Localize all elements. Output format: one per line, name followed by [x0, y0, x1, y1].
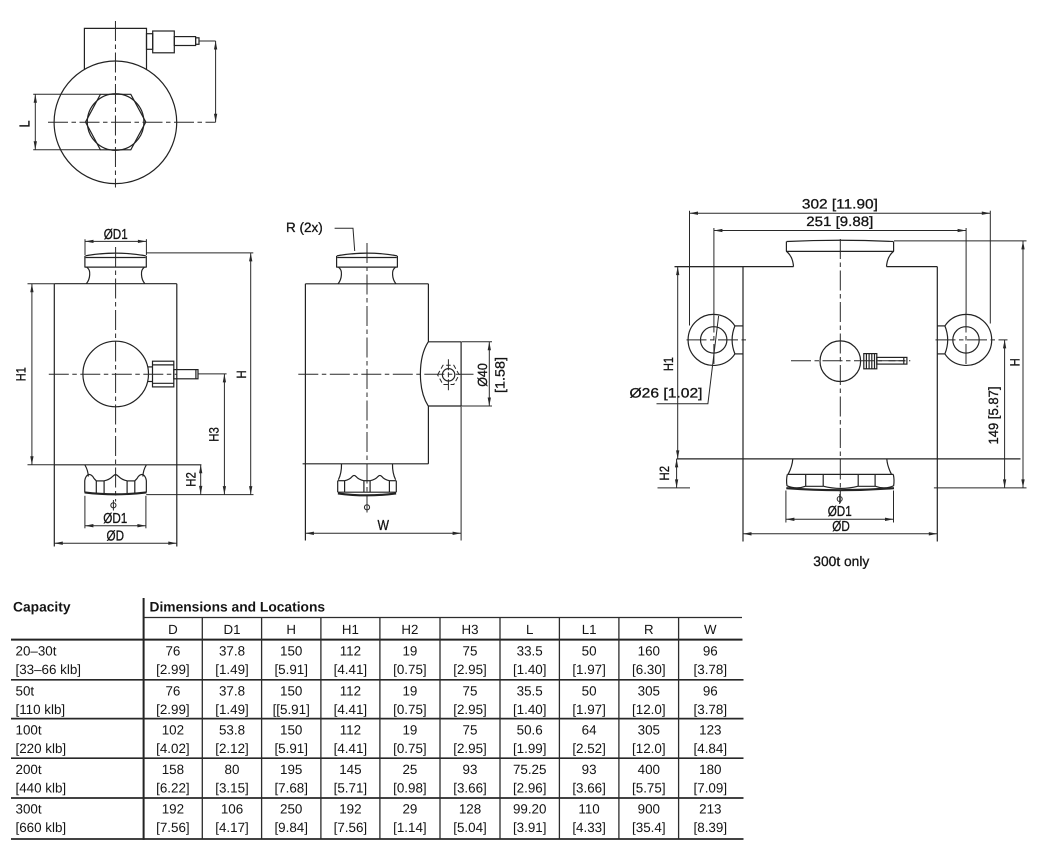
svg-text:53.8: 53.8 — [219, 722, 245, 737]
table row 20–30t — [16, 643, 728, 677]
top view body silhouette — [84, 28, 146, 69]
side view top cap — [336, 253, 398, 267]
svg-text:102: 102 — [162, 722, 184, 737]
table row 50t — [16, 684, 728, 718]
right view O26 leader line — [657, 316, 719, 404]
right view connector block — [864, 354, 877, 369]
right view neck fillets — [787, 252, 894, 267]
front view dimension OD1 top line — [85, 240, 146, 242]
front view dimension H label — [234, 371, 249, 379]
side view dimension O40 line — [488, 342, 490, 406]
svg-text:[110 klb]: [110 klb] — [16, 702, 66, 717]
svg-text:75.25: 75.25 — [513, 762, 547, 777]
svg-text:75: 75 — [463, 684, 478, 699]
svg-text:H1: H1 — [342, 622, 359, 637]
table thick line under letters — [11, 639, 743, 641]
svg-text:[12.0]: [12.0] — [632, 741, 666, 756]
front view top cap — [85, 253, 147, 267]
side view dimension O40 extension lines — [462, 342, 493, 406]
svg-text:Dimensions and Locations: Dimensions and Locations — [150, 600, 326, 615]
front view dimension H line — [250, 253, 252, 495]
svg-text:[5.04]: [5.04] — [453, 820, 487, 835]
svg-text:[5.71]: [5.71] — [334, 780, 368, 795]
svg-text:112: 112 — [340, 722, 361, 737]
svg-text:[35.4]: [35.4] — [632, 820, 666, 835]
svg-text:50t: 50t — [16, 684, 35, 699]
front view dimension H extension lines — [146, 253, 253, 495]
right view dimension H2 bottom extension line — [658, 487, 691, 489]
table column separator lines — [202, 618, 678, 840]
svg-text:[1.97]: [1.97] — [572, 662, 606, 677]
svg-text:[5.91]: [5.91] — [274, 741, 308, 756]
side view centerline symbol — [364, 502, 369, 513]
front view dimension H2 line — [200, 465, 202, 495]
right view connector pin — [877, 357, 907, 364]
svg-text:ØD1: ØD1 — [103, 511, 127, 527]
svg-text:[2.95]: [2.95] — [453, 702, 487, 717]
svg-text:H2: H2 — [184, 472, 199, 487]
front view centerline symbol — [111, 500, 116, 511]
side view R (2x) label — [286, 220, 323, 235]
svg-text:[3.66]: [3.66] — [453, 780, 487, 795]
svg-text:Capacity: Capacity — [13, 600, 71, 615]
svg-text:213: 213 — [699, 802, 721, 817]
svg-text:ØD: ØD — [107, 528, 125, 544]
table under-header line — [144, 617, 742, 619]
svg-text:128: 128 — [459, 802, 481, 817]
side view dimension W line — [305, 532, 461, 534]
right view right lifting eye — [937, 314, 991, 365]
svg-text:180: 180 — [699, 762, 721, 777]
svg-text:37.8: 37.8 — [219, 643, 245, 658]
table row 200t — [16, 762, 728, 796]
right view top cap — [786, 240, 894, 251]
svg-text:[2.12]: [2.12] — [215, 741, 249, 756]
top view reference line from pin to centerline — [199, 41, 216, 122]
svg-text:20–30t: 20–30t — [16, 643, 57, 658]
svg-text:106: 106 — [221, 802, 243, 817]
svg-text:76: 76 — [165, 643, 180, 658]
right view dimension OD label — [832, 519, 850, 535]
right view dimension H2 label — [657, 466, 672, 481]
right view dimension 251 extension lines — [714, 228, 966, 313]
side view fitting circle — [442, 369, 454, 381]
svg-text:37.8: 37.8 — [219, 684, 245, 699]
svg-text:D: D — [168, 622, 178, 637]
right view dimension OD1 extension lines — [786, 491, 894, 523]
svg-text:[3.78]: [3.78] — [694, 702, 728, 717]
svg-text:[7.56]: [7.56] — [156, 820, 190, 835]
right view dimension 149 line — [1004, 340, 1006, 488]
svg-text:80: 80 — [225, 762, 240, 777]
table column letter row — [168, 622, 717, 637]
side view body — [303, 284, 429, 541]
dimension L label — [18, 121, 34, 128]
svg-text:W: W — [704, 622, 717, 637]
right view bottom hex nut — [786, 474, 894, 490]
right view 300t only note — [813, 554, 869, 569]
svg-text:[3.78]: [3.78] — [694, 662, 728, 677]
right view dimension OD line — [743, 533, 937, 535]
svg-text:93: 93 — [582, 762, 597, 777]
top view hex nut — [86, 94, 146, 151]
right view dimension H1 label — [661, 357, 676, 371]
svg-text:[9.84]: [9.84] — [274, 820, 308, 835]
svg-text:145: 145 — [339, 762, 361, 777]
front view body — [54, 284, 201, 547]
svg-text:195: 195 — [280, 762, 302, 777]
dimension L extension lines — [33, 94, 100, 150]
right view body — [675, 267, 1021, 542]
table row 300t — [16, 802, 728, 836]
top view load cell circle — [54, 61, 177, 184]
svg-text:H1: H1 — [661, 357, 676, 371]
right view bottom right extension line — [934, 487, 1027, 489]
svg-text:[1.58]: [1.58] — [493, 357, 508, 393]
table row separator lines — [11, 680, 744, 839]
svg-text:19: 19 — [402, 684, 417, 699]
front view horizontal centerline — [49, 373, 177, 375]
front view dimension OD1 bottom extension lines — [85, 496, 146, 529]
svg-text:200t: 200t — [16, 762, 42, 777]
svg-text:192: 192 — [339, 802, 361, 817]
svg-text:96: 96 — [703, 684, 718, 699]
svg-text:[8.39]: [8.39] — [694, 820, 728, 835]
side view vertical centerline — [366, 243, 368, 508]
svg-text:[12.0]: [12.0] — [632, 702, 666, 717]
right view dimension OD1 label — [828, 504, 852, 520]
front view dimension H3 extension line — [198, 373, 226, 375]
svg-text:64: 64 — [582, 722, 597, 737]
right view dimension 302 extension lines — [690, 211, 991, 326]
svg-text:50.6: 50.6 — [517, 722, 543, 737]
svg-text:300t: 300t — [16, 802, 42, 817]
side view dimension W extension line right — [460, 406, 462, 540]
front view connector neck — [148, 367, 153, 382]
svg-text:150: 150 — [280, 643, 302, 658]
svg-text:[5.91]: [5.91] — [274, 662, 308, 677]
svg-text:[1.49]: [1.49] — [215, 662, 249, 677]
svg-text:[5.75]: [5.75] — [632, 780, 666, 795]
svg-text:D1: D1 — [224, 622, 241, 637]
svg-text:ØD: ØD — [832, 519, 850, 535]
front view vertical centerline — [115, 247, 117, 502]
svg-text:ØD1: ØD1 — [828, 504, 852, 520]
svg-text:[0.75]: [0.75] — [393, 662, 427, 677]
svg-text:[1.99]: [1.99] — [513, 741, 547, 756]
svg-text:50: 50 — [582, 684, 597, 699]
svg-text:300t only: 300t only — [813, 554, 869, 569]
svg-text:[1.49]: [1.49] — [215, 702, 249, 717]
svg-text:305: 305 — [638, 722, 660, 737]
front view dimension OD1 bottom label — [103, 511, 127, 527]
svg-text:L: L — [526, 622, 533, 637]
svg-text:[2.99]: [2.99] — [156, 702, 190, 717]
right view vertical centerline — [839, 239, 841, 503]
right view dimension 302 label — [802, 196, 878, 211]
svg-text:150: 150 — [280, 684, 302, 699]
svg-text:[3.66]: [3.66] — [572, 780, 606, 795]
svg-text:112: 112 — [340, 643, 361, 658]
top view horizontal centerline — [48, 121, 216, 123]
front view dimension OD1 top extension lines — [85, 239, 146, 255]
svg-text:250: 250 — [280, 802, 302, 817]
svg-text:900: 900 — [638, 802, 660, 817]
svg-text:H: H — [1007, 358, 1022, 366]
svg-text:[2.96]: [2.96] — [513, 780, 547, 795]
svg-text:110: 110 — [578, 802, 599, 817]
front view center circle — [83, 341, 149, 407]
right view dimension 251 line — [714, 230, 966, 232]
svg-text:[7.56]: [7.56] — [334, 820, 368, 835]
front view dimension H3 line — [223, 374, 225, 495]
right view dimension H extension line — [894, 240, 1027, 242]
svg-text:[7.09]: [7.09] — [694, 780, 728, 795]
front view dimension OD1 bottom line — [85, 525, 146, 527]
svg-text:19: 19 — [402, 722, 417, 737]
right view dimension H label — [1007, 358, 1022, 366]
svg-text:75: 75 — [463, 643, 478, 658]
svg-text:[2.95]: [2.95] — [453, 741, 487, 756]
front view dimension OD1 top label — [104, 227, 128, 243]
svg-text:112: 112 — [340, 684, 361, 699]
svg-text:50: 50 — [582, 643, 597, 658]
svg-text:33.5: 33.5 — [517, 643, 543, 658]
table header Dimensions and Locations — [150, 600, 326, 615]
svg-text:L: L — [18, 121, 34, 128]
svg-text:[4.84]: [4.84] — [694, 741, 728, 756]
svg-text:76: 76 — [165, 684, 180, 699]
svg-text:25: 25 — [402, 762, 417, 777]
front view dimension H1 label — [13, 367, 28, 381]
svg-text:W: W — [377, 518, 389, 534]
right view center circle — [820, 341, 861, 382]
svg-text:[4.17]: [4.17] — [215, 820, 249, 835]
svg-text:[2.99]: [2.99] — [156, 662, 190, 677]
svg-text:[6.30]: [6.30] — [632, 662, 666, 677]
right view left lifting eye — [688, 314, 743, 365]
svg-text:H1: H1 — [13, 367, 28, 381]
svg-text:[[5.91]: [[5.91] — [273, 702, 310, 717]
front view connector pin — [174, 370, 198, 379]
right view bottom nut fillets — [788, 459, 891, 474]
svg-text:[33–66 klb]: [33–66 klb] — [16, 662, 82, 677]
top view vertical centerline — [114, 21, 116, 188]
svg-text:99.20: 99.20 — [513, 802, 547, 817]
right view dimension 149 label — [986, 387, 1001, 445]
svg-text:H: H — [234, 371, 249, 379]
svg-text:158: 158 — [162, 762, 184, 777]
front view neck fillets — [86, 267, 144, 283]
svg-text:[6.22]: [6.22] — [156, 780, 190, 795]
side view R leader line — [335, 228, 355, 251]
front view connector block — [153, 361, 174, 387]
svg-text:160: 160 — [638, 643, 660, 658]
front view dimension H1 line — [31, 284, 33, 465]
svg-text:29: 29 — [402, 802, 417, 817]
svg-text:ØD1: ØD1 — [104, 227, 128, 243]
svg-text:302 [11.90]: 302 [11.90] — [802, 196, 878, 211]
svg-text:[1.40]: [1.40] — [513, 662, 547, 677]
right view horizontal centerline — [791, 360, 910, 362]
svg-text:[1.40]: [1.40] — [513, 702, 547, 717]
right view dimension H1 line — [677, 267, 679, 459]
right view right eye centerlines — [936, 313, 1008, 368]
right view dimension H line — [1022, 241, 1024, 488]
top view connector block — [153, 31, 175, 53]
svg-text:19: 19 — [402, 643, 417, 658]
svg-text:H2: H2 — [401, 622, 418, 637]
svg-text:[220 klb]: [220 klb] — [16, 741, 67, 756]
svg-text:[440 klb]: [440 klb] — [16, 780, 67, 795]
svg-text:[3.15]: [3.15] — [215, 780, 249, 795]
svg-text:305: 305 — [638, 684, 660, 699]
right view dimension 251 label — [806, 214, 873, 229]
front view bottom nut fillets — [85, 465, 146, 477]
top view connector pin — [174, 37, 199, 46]
right view centerline symbol — [837, 494, 842, 504]
right view dimension 302 line — [690, 212, 991, 214]
table header Capacity — [13, 600, 71, 615]
svg-text:192: 192 — [162, 802, 184, 817]
svg-text:[2.52]: [2.52] — [572, 741, 606, 756]
svg-text:Ø26 [1.02]: Ø26 [1.02] — [630, 386, 703, 401]
svg-text:H2: H2 — [657, 466, 672, 481]
svg-text:[0.75]: [0.75] — [393, 702, 427, 717]
side view dimension W label — [377, 518, 389, 534]
side view neck fillets — [338, 267, 396, 284]
side view bottom nut fillets — [338, 464, 395, 480]
svg-text:[3.91]: [3.91] — [513, 820, 547, 835]
right view left eye centerlines — [687, 313, 748, 368]
svg-text:H3: H3 — [207, 427, 222, 442]
svg-text:[4.33]: [4.33] — [572, 820, 606, 835]
svg-text:L1: L1 — [582, 622, 597, 637]
svg-text:400: 400 — [638, 762, 660, 777]
svg-text:[0.75]: [0.75] — [393, 741, 427, 756]
svg-text:Ø40: Ø40 — [475, 363, 490, 387]
top view connector tab — [147, 34, 153, 50]
svg-text:H3: H3 — [462, 622, 479, 637]
front view dimension H3 label — [207, 427, 222, 442]
svg-text:[2.95]: [2.95] — [453, 662, 487, 677]
front view dimension H1 extension lines — [28, 284, 55, 465]
svg-text:35.5: 35.5 — [517, 684, 543, 699]
svg-text:93: 93 — [463, 762, 478, 777]
svg-text:150: 150 — [280, 722, 302, 737]
right view O26 label — [630, 386, 703, 401]
right view dimension H1 extension line — [675, 266, 744, 268]
dimension L line — [34, 94, 36, 150]
side view dimension O40 label — [475, 357, 508, 393]
right view dimension OD1 line — [786, 518, 894, 520]
svg-text:96: 96 — [703, 643, 718, 658]
table divider vertical line — [143, 598, 145, 840]
side view connector boss — [420, 342, 461, 406]
front view dimension H2 label — [184, 472, 199, 487]
front view bottom hex nut — [85, 475, 147, 495]
svg-text:[0.98]: [0.98] — [393, 780, 427, 795]
svg-text:100t: 100t — [16, 722, 42, 737]
front view dimension OD label — [107, 528, 125, 544]
svg-text:[660 klb]: [660 klb] — [16, 820, 67, 835]
svg-text:[1.97]: [1.97] — [572, 702, 606, 717]
svg-text:149 [5.87]: 149 [5.87] — [986, 387, 1001, 445]
svg-text:[4.41]: [4.41] — [334, 741, 368, 756]
svg-text:[7.68]: [7.68] — [274, 780, 308, 795]
svg-text:75: 75 — [463, 722, 478, 737]
svg-text:251 [9.88]: 251 [9.88] — [806, 214, 873, 229]
svg-text:R: R — [644, 622, 654, 637]
side view horizontal centerline — [298, 373, 473, 375]
table row 100t — [16, 722, 728, 756]
svg-text:H: H — [286, 622, 296, 637]
svg-text:[1.14]: [1.14] — [393, 820, 427, 835]
svg-text:[4.02]: [4.02] — [156, 741, 190, 756]
side view bottom hex nut — [338, 475, 397, 495]
side view hidden hex fitting — [438, 365, 460, 384]
front view dimension OD line — [54, 542, 177, 544]
svg-text:[4.41]: [4.41] — [334, 702, 368, 717]
svg-text:123: 123 — [699, 722, 721, 737]
right view dimension H2 line — [676, 459, 678, 488]
side view fitting vertical centerline — [447, 359, 449, 390]
svg-text:R (2x): R (2x) — [286, 220, 323, 235]
svg-text:[4.41]: [4.41] — [334, 662, 368, 677]
